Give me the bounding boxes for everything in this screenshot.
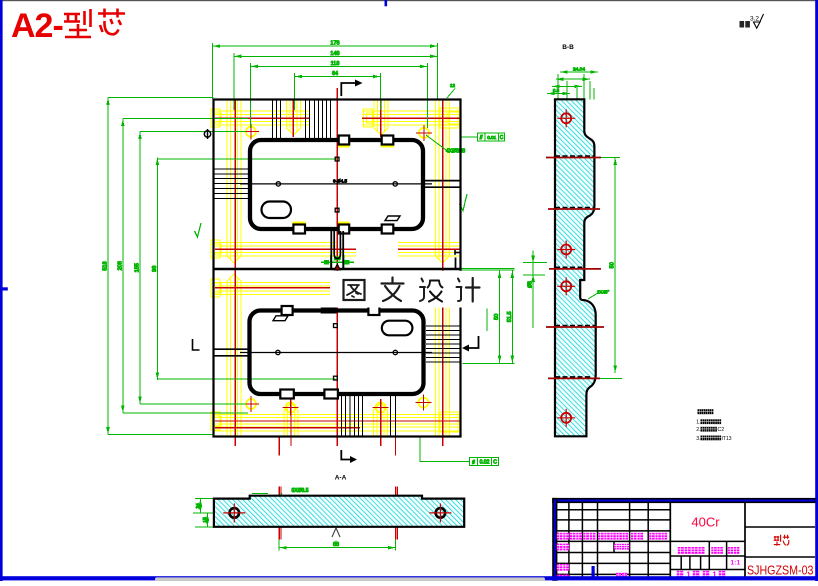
svg-text:A: A xyxy=(334,539,337,544)
svg-text:0.01: 0.01 xyxy=(487,135,496,140)
svg-text:64: 64 xyxy=(332,71,338,77)
svg-text:C: C xyxy=(500,135,504,141)
svg-text:C2: C2 xyxy=(718,427,725,433)
svg-text:15: 15 xyxy=(202,517,208,523)
svg-text:3.2: 3.2 xyxy=(750,15,759,22)
svg-text:40Cr: 40Cr xyxy=(691,515,720,530)
svg-text:50: 50 xyxy=(610,262,616,268)
svg-text:A-A: A-A xyxy=(335,475,347,482)
svg-text:51.5: 51.5 xyxy=(507,311,513,322)
svg-text:Ø8: Ø8 xyxy=(528,281,534,288)
svg-text:518: 518 xyxy=(103,261,109,270)
svg-text:178: 178 xyxy=(330,41,339,47)
svg-text:206: 206 xyxy=(117,261,123,270)
svg-text:148: 148 xyxy=(330,51,339,57)
svg-text:B-B: B-B xyxy=(562,44,574,51)
svg-text:SJHGZSM-03: SJHGZSM-03 xyxy=(747,563,814,578)
svg-text:0.5: 0.5 xyxy=(553,88,560,93)
svg-text:0.02: 0.02 xyxy=(480,460,490,466)
svg-text:4XØ8H8: 4XØ8H8 xyxy=(446,149,465,155)
svg-text:155: 155 xyxy=(135,263,141,272)
svg-text:2X45°: 2X45° xyxy=(597,290,610,295)
svg-text:12: 12 xyxy=(450,83,456,88)
svg-text:6-Ø4.5: 6-Ø4.5 xyxy=(333,178,347,183)
svg-text:C: C xyxy=(493,460,497,466)
svg-text:24: 24 xyxy=(195,503,201,509)
svg-text:A2-: A2- xyxy=(11,7,63,45)
svg-text:98: 98 xyxy=(152,266,158,272)
svg-text:118: 118 xyxy=(331,61,340,67)
svg-text:24.04: 24.04 xyxy=(573,67,585,73)
svg-text:3.: 3. xyxy=(696,436,700,442)
svg-text:8XØ8.5: 8XØ8.5 xyxy=(292,488,309,494)
svg-text:50: 50 xyxy=(494,314,500,320)
svg-text:2.: 2. xyxy=(696,427,700,433)
svg-text:1:1: 1:1 xyxy=(730,559,740,566)
svg-text:1.: 1. xyxy=(696,420,700,426)
svg-text:IT13: IT13 xyxy=(722,436,732,442)
